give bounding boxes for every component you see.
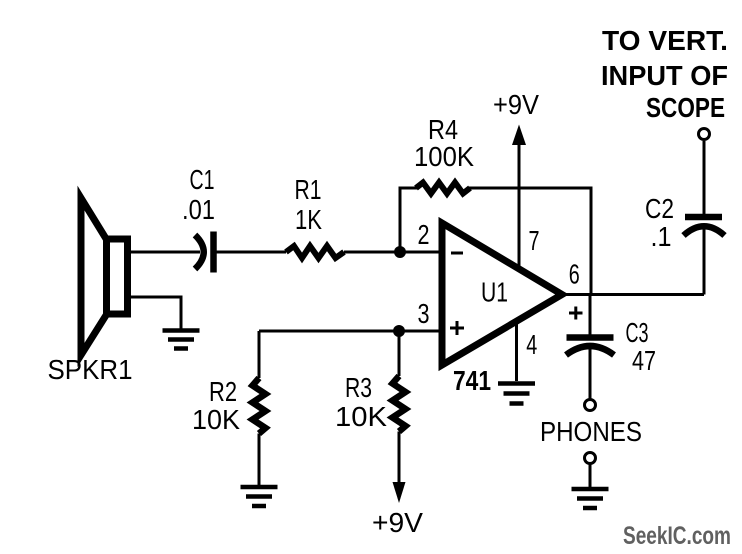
svg-text:47: 47 (632, 345, 656, 376)
svg-text:R3: R3 (345, 372, 372, 403)
svg-text:SCOPE: SCOPE (646, 92, 725, 123)
wire speaker bottom to ground (127, 297, 181, 329)
svg-text:3: 3 (418, 298, 430, 329)
plus sign (pin3) (450, 327, 464, 330)
svg-text:U1: U1 (481, 277, 508, 308)
ground (pin4) (498, 384, 535, 404)
svg-text:+9V: +9V (372, 507, 423, 538)
arrow head +9V (up) (512, 125, 526, 146)
svg-text:PHONES: PHONES (540, 416, 642, 447)
svg-text:SeekIC.com: SeekIC.com (623, 522, 731, 550)
feedback wire up and across (400, 188, 417, 252)
pin 4 wire to ground (515, 321, 518, 381)
svg-text:1K: 1K (295, 204, 322, 235)
speaker SPKR1 (81, 198, 128, 355)
svg-text:INPUT OF: INPUT OF (601, 60, 728, 91)
svg-text:741: 741 (453, 365, 491, 396)
wire down to R2 (258, 331, 261, 378)
pin 7 wire to +9V arrow (518, 143, 521, 269)
svg-text:10K: 10K (192, 404, 240, 435)
svg-text:TO VERT.: TO VERT. (602, 25, 728, 56)
ground (speaker) (163, 331, 200, 349)
capacitor C2 upper lead (703, 141, 706, 214)
capacitor C1 (195, 235, 204, 269)
svg-text:+9V: +9V (493, 89, 539, 120)
svg-text:C2: C2 (645, 193, 674, 224)
wire R2 to ground (258, 434, 261, 487)
resistor R4 (416, 183, 470, 194)
wire down to R3 (398, 331, 401, 376)
svg-text:100K: 100K (414, 141, 474, 172)
op-amp U1 (442, 223, 562, 365)
terminal circle (bottom PHONES) (585, 453, 596, 464)
feedback wire right and down to output (469, 188, 591, 295)
capacitor C3 (567, 334, 614, 341)
svg-text:6: 6 (569, 259, 580, 290)
plus sign (C3) (569, 312, 583, 315)
minus sign (pin2) (451, 252, 463, 255)
capacitor C2 (684, 226, 725, 235)
terminal circle (top PHONES) (585, 400, 596, 411)
output wire pin 6 (560, 293, 704, 296)
node dot pin3 (393, 325, 405, 337)
svg-text:C3: C3 (626, 317, 649, 348)
svg-text:C1: C1 (190, 164, 215, 195)
svg-text:10K: 10K (335, 401, 387, 432)
arrow to +9V (down) (393, 482, 406, 503)
svg-text:R1: R1 (295, 174, 322, 205)
svg-text:2: 2 (418, 219, 430, 250)
wire pin3 (259, 330, 441, 333)
terminal circle (scope) (699, 129, 710, 140)
resistor R3 (393, 376, 406, 432)
wire R1 to op-amp pin 2 (344, 251, 441, 254)
resistor R2 (253, 378, 266, 434)
svg-text:R2: R2 (209, 376, 237, 407)
svg-text:7: 7 (529, 225, 540, 256)
svg-text:.1: .1 (651, 221, 672, 252)
wire to ground (PHONES) (589, 464, 592, 488)
ground (PHONES) (572, 489, 609, 508)
svg-text:.01: .01 (182, 194, 215, 225)
wire C1 to R1 (217, 251, 287, 254)
wire R3 down (398, 432, 401, 483)
capacitor C2 lower lead (703, 228, 706, 295)
ground (R2) (241, 487, 278, 506)
wire speaker top to C1 (127, 251, 200, 254)
resistor R1 (286, 246, 344, 258)
svg-text:SPKR1: SPKR1 (48, 354, 133, 385)
node dot pin2 (394, 246, 406, 258)
svg-text:4: 4 (526, 329, 537, 360)
wire C3 to terminal (589, 347, 592, 399)
capacitor C3 lead (589, 295, 592, 337)
